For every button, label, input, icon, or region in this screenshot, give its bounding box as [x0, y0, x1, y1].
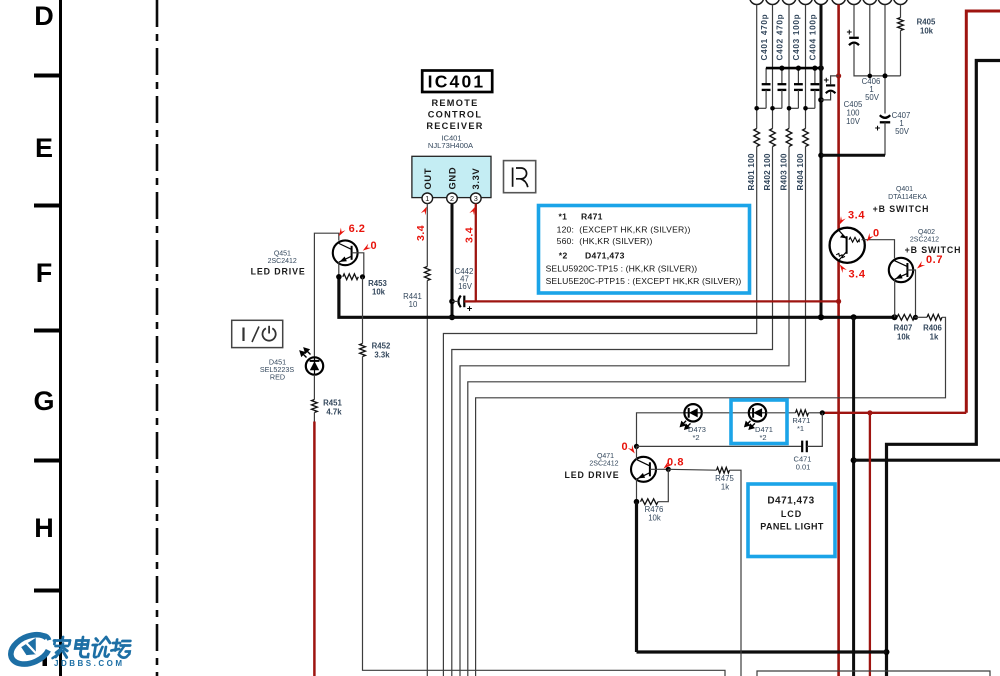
junction Q471 emitter node: [634, 499, 640, 505]
voltage arrow 0.8: [662, 461, 672, 470]
svg-text:E: E: [35, 133, 53, 163]
junction C471 left: [634, 444, 639, 449]
resistor R471: [796, 410, 809, 416]
svg-text:2: 2: [450, 194, 454, 203]
border: schematic left frame line: [59, 0, 62, 676]
wire red vertical x=870: [869, 413, 871, 676]
svg-text:50V: 50V: [865, 93, 880, 102]
svg-text:Q402: Q402: [918, 229, 935, 236]
svg-text:3.3k: 3.3k: [374, 351, 390, 360]
wire R452 lower: [363, 357, 726, 676]
svg-text:R404 100: R404 100: [796, 153, 805, 190]
svg-text:Q471: Q471: [597, 453, 614, 460]
svg-text:50V: 50V: [895, 127, 910, 136]
connector pin 8: [863, 0, 877, 5]
svg-text:2SC2412: 2SC2412: [589, 461, 618, 468]
wire pin1 vertical upper: [756, 5, 758, 129]
svg-text:D471,473: D471,473: [767, 496, 814, 507]
svg-text:R403 100: R403 100: [779, 153, 788, 190]
svg-text:10: 10: [409, 300, 418, 309]
wire pin7 upper: [853, 5, 855, 37]
junction bus x=822: [818, 314, 824, 320]
svg-text:REMOTE: REMOTE: [431, 98, 478, 108]
svg-text:3.4: 3.4: [415, 225, 427, 241]
connector pin 9: [878, 0, 892, 5]
wire OUT pin1 vertical: [426, 204, 428, 267]
junction pin8 node: [868, 74, 873, 79]
svg-text:C403 100p: C403 100p: [792, 14, 801, 61]
svg-text:OUT: OUT: [423, 168, 433, 190]
svg-text:1: 1: [425, 194, 429, 203]
LED D473 emission arrows: [681, 421, 691, 429]
svg-text:0.01: 0.01: [796, 463, 811, 472]
connector pin 5: [814, 0, 828, 5]
junction GND/C405: [818, 97, 824, 103]
wire +3.4V pin6 red vertical: [837, 5, 840, 231]
svg-text:10k: 10k: [897, 333, 911, 342]
junction R471/C471/+B: [820, 410, 825, 415]
wire pin1 vertical lower to corner: [443, 147, 756, 676]
voltage arrow Q401 bottom: [838, 263, 847, 273]
svg-text:10k: 10k: [920, 27, 934, 36]
grid tick y=75: [34, 74, 60, 78]
IC401 title box: [422, 71, 492, 93]
svg-text:C401 470p: C401 470p: [760, 14, 769, 61]
wire R406 to corner line: [476, 317, 946, 676]
resistor R403: [786, 129, 792, 147]
resistor R441: [424, 267, 430, 281]
junction C403 bus: [796, 66, 801, 71]
LED D473: [684, 404, 701, 421]
svg-text:R402 100: R402 100: [763, 153, 772, 190]
connector pin 3: [782, 0, 796, 5]
voltage arrow pin3: [469, 205, 477, 215]
capacitor C403: [797, 68, 799, 84]
svg-text:IC401: IC401: [428, 72, 486, 92]
wire pin2 vertical lower to corner: [452, 147, 773, 676]
junction C402 on pin line: [770, 106, 775, 111]
wire C471 left: [637, 445, 803, 447]
resistor R402: [770, 129, 776, 147]
svg-text:R452: R452: [372, 342, 391, 351]
LED D471 emission arrows: [745, 421, 755, 429]
IC401 pin 1: [422, 193, 433, 204]
wire Q402 emitter to bus: [894, 280, 896, 318]
connector pin 6: [832, 0, 846, 5]
wire R476 to base: [658, 469, 668, 501]
svg-text:1k: 1k: [930, 333, 939, 342]
wire D471-R471: [766, 412, 795, 414]
wire base to R475: [668, 468, 716, 471]
svg-text:PANEL LIGHT: PANEL LIGHT: [760, 522, 824, 532]
wire OUT lower to bottom: [426, 281, 428, 676]
svg-text:D: D: [34, 1, 54, 31]
svg-text:3.4: 3.4: [848, 269, 865, 281]
transistor Q402: [889, 258, 913, 282]
wire red +B horizontal y=412.8: [822, 412, 966, 414]
watermark text jiadian luntan: [51, 637, 70, 658]
svg-text:LCD: LCD: [781, 509, 802, 519]
grid tick y=330: [34, 329, 60, 333]
svg-text:0: 0: [370, 240, 376, 252]
wire LED row left corner: [637, 413, 685, 447]
svg-text:3: 3: [474, 194, 478, 203]
LED D471: [749, 404, 766, 421]
resistor R476: [641, 499, 659, 505]
wire pin3 vertical upper: [788, 5, 790, 129]
wire GND main bus thick: [339, 277, 895, 318]
capacitor C402: [781, 68, 783, 84]
svg-text:2SC2412: 2SC2412: [910, 237, 939, 244]
grid tick bottom stub: [43, 654, 48, 666]
svg-text:G: G: [33, 386, 54, 416]
svg-text:120: (EXCEPT HK,KR (SILVER)): 120: (EXCEPT HK,KR (SILVER)): [557, 225, 691, 235]
power standby symbol box: [232, 320, 283, 347]
svg-text:3.3V: 3.3V: [471, 167, 481, 189]
junction bus to GND line: [818, 65, 824, 71]
wire black from right edge: [887, 61, 1000, 676]
svg-text:+: +: [847, 27, 853, 38]
svg-text:0.7: 0.7: [926, 254, 943, 266]
wire pin2 vertical upper: [772, 5, 774, 129]
wire C404 jog to pin line: [806, 107, 815, 109]
junction C404 on pin line: [803, 106, 808, 111]
junction GND main bus: [818, 314, 824, 320]
wire Q471 base: [650, 468, 668, 470]
wire thick horizontal y=652: [637, 650, 887, 653]
voltage arrow 0 Q471: [628, 445, 637, 455]
junction R453 right: [360, 274, 365, 279]
junction GND/C442: [449, 299, 455, 305]
wire pin9: [884, 5, 886, 114]
IC401 pin 3: [471, 193, 482, 204]
svg-text:SELU5920C-TP15 : (HK,KR (SILVE: SELU5920C-TP15 : (HK,KR (SILVER)): [546, 263, 698, 273]
LED D451 emission arrows: [300, 348, 310, 357]
svg-text:F: F: [36, 258, 53, 288]
wire Q471 collector: [636, 446, 638, 459]
voltage arrow Q401 top: [837, 216, 846, 226]
svg-text:R407: R407: [894, 324, 913, 333]
wire pin7 lower to node: [854, 44, 901, 76]
IC401 body: [412, 156, 491, 197]
note box R471/D471 variants: [539, 206, 750, 294]
transistor Q451: [333, 240, 358, 265]
svg-text:GND: GND: [447, 167, 457, 190]
wire Q451 collector to D451: [314, 233, 338, 357]
wire Q402 base: [907, 270, 915, 317]
wire Q401 base to Q402 collector: [862, 240, 895, 259]
board outline dashed line: [156, 0, 159, 676]
wire C402 jog to pin line: [773, 107, 782, 109]
highlight box D471: [731, 400, 787, 444]
transistor Q471: [631, 457, 656, 482]
junction C401 on pin line: [754, 106, 759, 111]
svg-text:C402 470p: C402 470p: [776, 14, 785, 61]
svg-text:C404 100p: C404 100p: [809, 14, 818, 61]
svg-text:3.4: 3.4: [464, 227, 476, 243]
resistor R407: [897, 314, 915, 320]
svg-text:*2: *2: [559, 250, 568, 260]
svg-text:0: 0: [873, 228, 879, 240]
wire pin10 upper: [900, 5, 902, 18]
svg-text:10V: 10V: [846, 117, 861, 126]
svg-text:JDBBS.COM: JDBBS.COM: [54, 659, 125, 668]
capacitor C405: [831, 76, 839, 84]
junction bus Q402 emitter: [892, 314, 898, 320]
wire pin8: [869, 5, 871, 76]
junction red y=412.8: [867, 410, 872, 415]
svg-text:H: H: [34, 513, 54, 543]
resistor R475: [717, 467, 730, 473]
wire R471 to junction: [809, 412, 823, 414]
junction Q471 base node: [666, 467, 671, 472]
wire R451 lower: [313, 413, 315, 422]
junction GND/C407 bus: [818, 153, 824, 159]
wire thick black x=853.6: [852, 317, 855, 676]
svg-text:3.4: 3.4: [848, 210, 865, 222]
junction base node: [913, 315, 918, 320]
junction +3.4V/3.3V bus: [836, 299, 841, 304]
wire base to R452: [362, 277, 364, 344]
voltage arrow Q401 base: [865, 233, 874, 243]
wire GND pin5 thick vertical: [820, 5, 823, 318]
svg-text:+B SWITCH: +B SWITCH: [873, 204, 930, 214]
capacitor C406: [849, 37, 859, 39]
grid tick y=590: [34, 589, 60, 593]
junction pin9 node: [883, 73, 888, 78]
wire GND pin2 thick: [451, 204, 454, 318]
transistor Q401 (digital PNP): [830, 228, 865, 263]
wire R475 to bottom: [730, 470, 742, 676]
svg-text:D471,473: D471,473: [585, 250, 625, 260]
wire capacitor top bus (GND): [766, 67, 821, 70]
wire Q471 emitter: [636, 479, 638, 502]
resistor R404: [803, 129, 809, 147]
resistor R405: [898, 18, 904, 31]
wire 3.3V pin3 red: [476, 204, 839, 302]
junction C402 bus: [779, 66, 784, 71]
svg-text:Q401: Q401: [896, 186, 913, 193]
wire D451 to R451: [313, 375, 315, 400]
svg-text:RECEIVER: RECEIVER: [426, 121, 483, 131]
junction bus x=853.6: [851, 314, 857, 320]
svg-text:*2: *2: [759, 433, 766, 442]
wire Q451 emitter: [338, 262, 340, 277]
wire red to bottom left: [313, 422, 316, 676]
wire pin4 vertical lower to corner: [468, 147, 806, 676]
wire emitter thick to bottom bus: [635, 502, 638, 652]
svg-text:2SC2412: 2SC2412: [268, 258, 297, 265]
svg-text:SELU5E20C-PTP15 : (EXCEPT HK,K: SELU5E20C-PTP15 : (EXCEPT HK,KR (SILVER)…: [546, 276, 742, 286]
wire thick horizontal y=460: [854, 459, 1000, 462]
grid tick y=205: [34, 204, 60, 208]
voltage arrow pin1: [421, 205, 429, 215]
svg-text:DTA114EKA: DTA114EKA: [888, 194, 927, 201]
remote control symbol box: [504, 161, 536, 193]
svg-text:+B SWITCH: +B SWITCH: [905, 245, 962, 255]
svg-text:10k: 10k: [372, 288, 386, 297]
wire D473-D471: [702, 412, 749, 414]
voltage arrow Q402 base: [915, 261, 925, 270]
grid tick y=460: [34, 459, 60, 463]
junction thick y=460: [851, 457, 857, 463]
wire C471 right: [807, 413, 823, 447]
capacitor C407: [880, 115, 890, 118]
svg-text:CONTROL: CONTROL: [428, 110, 483, 120]
junction C403 on pin line: [787, 106, 792, 111]
connector pin 10: [894, 0, 908, 5]
svg-text:RED: RED: [270, 373, 285, 382]
wire pin10 lower: [900, 31, 902, 76]
capacitor C442: [452, 300, 457, 302]
resistor R401: [754, 129, 760, 147]
svg-text:LED DRIVE: LED DRIVE: [251, 267, 306, 277]
wire C401 jog to pin line: [757, 107, 766, 109]
svg-text:R405: R405: [917, 18, 936, 27]
wire bottom-right block outline: [757, 671, 990, 676]
svg-text:+: +: [467, 304, 473, 315]
connector pin 4: [799, 0, 813, 5]
svg-text:*1: *1: [559, 212, 568, 222]
wire pin3 vertical lower to corner: [460, 147, 789, 676]
resistor R453: [343, 274, 359, 280]
connector pin 1: [750, 0, 764, 5]
voltage arrow 6.2: [337, 228, 346, 238]
watermark logo swirl: [6, 629, 55, 670]
svg-text:6.2: 6.2: [349, 223, 366, 235]
voltage arrow 0 Q451: [361, 244, 371, 253]
wire pin4 vertical upper: [805, 5, 807, 129]
svg-text:*2: *2: [692, 433, 699, 442]
wire +B red from right edge: [966, 11, 1000, 413]
wire C403 jog to pin line: [789, 107, 798, 109]
svg-text:Q451: Q451: [274, 251, 291, 258]
wire Q451 base: [352, 253, 364, 277]
resistor R406: [927, 314, 942, 320]
svg-text:NJL73H400A: NJL73H400A: [428, 141, 474, 150]
svg-text:560: (HK,KR (SILVER)): 560: (HK,KR (SILVER)): [557, 236, 653, 246]
svg-text:0: 0: [621, 441, 627, 453]
svg-text:0.8: 0.8: [667, 457, 684, 469]
svg-text:1k: 1k: [721, 483, 729, 492]
svg-text:R451: R451: [323, 399, 342, 408]
wire GND bus top-right thick: [821, 154, 885, 157]
IC401 pin 2: [447, 193, 458, 204]
svg-text:R471: R471: [581, 212, 603, 222]
svg-text:LED DRIVE: LED DRIVE: [564, 470, 619, 480]
connector pin 2: [766, 0, 780, 5]
resistor R451: [312, 400, 318, 413]
svg-text:16V: 16V: [458, 282, 473, 291]
capacitor C471: [801, 441, 803, 453]
junction thick y=652: [884, 649, 890, 655]
svg-text:4.7k: 4.7k: [326, 408, 342, 417]
svg-text:+: +: [875, 123, 881, 134]
svg-text:R406: R406: [923, 324, 942, 333]
svg-text:+: +: [824, 75, 830, 86]
junction +3.4V/C405: [836, 73, 841, 78]
connector pin 7: [847, 0, 861, 5]
svg-text:*1: *1: [797, 424, 804, 433]
capacitor C401: [765, 68, 767, 84]
capacitor C404: [814, 68, 816, 84]
wire R407-R406: [915, 316, 928, 318]
junction C404 bus: [812, 66, 817, 71]
svg-text:R401 100: R401 100: [747, 153, 756, 190]
resistor R452: [360, 344, 366, 357]
junction GND bus pin2: [449, 314, 455, 320]
note box LCD panel light: [748, 484, 835, 557]
LED D451: [306, 357, 323, 374]
svg-text:10k: 10k: [648, 514, 661, 523]
junction R453 left: [336, 274, 342, 280]
